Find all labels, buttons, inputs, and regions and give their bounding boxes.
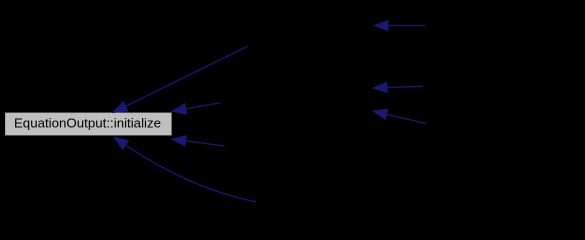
edge D: caller node4 -> EquationOutput::initialize (bottom curve)	[126, 145, 256, 202]
arrowhead R1	[374, 20, 388, 30]
edge R2: right column -> middle node (middle)	[387, 86, 423, 87]
edge B: caller node2 -> EquationOutput::initialize (upper right)	[186, 103, 220, 109]
arrowhead R3	[373, 109, 388, 119]
edge R1: right column -> middle node (top)	[388, 25, 426, 27]
node EquationOutput::initialize	[5, 112, 173, 136]
arrowhead B	[172, 104, 187, 114]
arrowhead R2	[373, 82, 387, 92]
arrowhead D	[114, 137, 129, 149]
svg-text:EquationOutput::initialize: EquationOutput::initialize	[14, 116, 161, 131]
arrowhead A	[113, 102, 128, 113]
edge C: caller node3 -> EquationOutput::initialize (lower right)	[186, 141, 225, 146]
edge R3: right column -> middle node (lower)	[387, 114, 426, 123]
edge A: caller node1 -> EquationOutput::initialize (top)	[126, 46, 248, 106]
arrowhead C	[172, 136, 187, 146]
